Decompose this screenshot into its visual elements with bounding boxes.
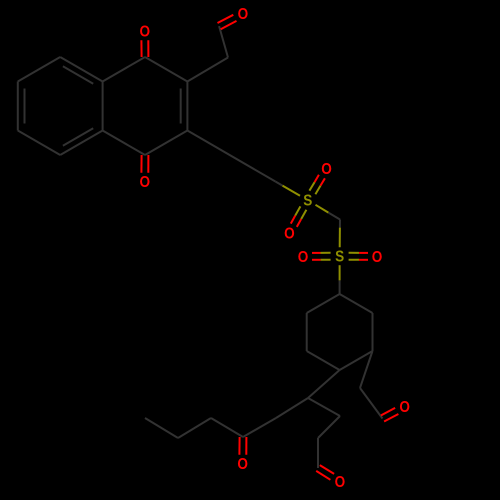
branch bond X1-Y1 [308,398,340,416]
svg-text:O: O [399,399,410,416]
bond CH2d-S2 [339,220,341,228]
chain bond RB-X1 [308,370,340,398]
chain bond E2-E1 [178,418,211,438]
benzene ring bond U-P [17,82,19,131]
benzene ring bond P-Q [18,57,60,82]
bond C2-CH2 acetaldehyde arm [187,58,228,82]
cyclohexane bond LR-RB [340,351,373,370]
chain bond X2-C8 [243,418,276,437]
benzene double-bond tick U=P [24,89,26,124]
cyclohexane bond RT-UR [340,294,373,313]
branch bond Y2-C7 [317,438,319,468]
sulfonyl double bond S2=O2L [321,252,331,254]
bond S1-CH2d [316,205,329,213]
aldehyde double bond C7=O7 [316,471,330,480]
carbonyl double bond C1=O1 [147,40,149,57]
svg-text:O: O [284,226,295,243]
chain bond E1-E0 [145,418,178,438]
chain bond X1-X2 [276,398,308,418]
benzene double-bond tick Q=R [63,66,93,84]
svg-text:O: O [237,456,248,473]
benzene double-bond tick S=T [63,128,93,146]
quinone ring bond C8a-C1 [103,57,145,82]
aldehyde double bond C6=O6 [384,414,398,422]
branch bond LR-CH2g [360,351,373,388]
svg-text:O: O [140,24,151,41]
benzene ring bond T-U [18,131,60,156]
svg-text:O: O [335,474,346,491]
fused shared bond R-S [102,82,104,131]
cyclohexane bond UL-RT [307,294,340,313]
bond K1-S1 [275,182,282,186]
quinone ring bond C4-C4a [103,131,145,156]
sulfonyl double bond S2=O2R [349,259,359,261]
branch bond Y1-Y2 [318,416,340,438]
svg-text:O: O [298,249,309,266]
bond CH2-CHO [219,26,228,57]
aldehyde double bond CHO=O3 [221,21,237,29]
benzene ring bond S-T [60,131,102,156]
svg-text:O: O [372,249,383,266]
cyclohexane bond RB-LL [307,351,340,370]
ketone double bond C8=O8 [238,437,240,455]
svg-text:O: O [140,174,151,191]
chain bond C8-E2 [211,418,243,437]
chain bond C3-K1 [187,131,275,182]
svg-text:S: S [303,193,312,210]
quinone ring bond C1-C2 [145,57,187,82]
cyclohexane bond LL-UL [306,313,308,351]
carbonyl double bond C4=O2 [140,155,142,173]
svg-text:O: O [238,6,249,23]
svg-text:O: O [321,161,332,178]
cyclohexane bond UR-LR [372,313,374,351]
quinone ring bond C3-C4 [145,131,187,156]
benzene ring bond Q-R [60,57,102,82]
quinone double-bond tick C2=C3 [180,89,182,124]
branch bond CH2g-C6 [360,388,383,419]
quinone ring bond C2-C3 [186,82,188,131]
sulfonyl double bond S1=O5 [295,206,300,215]
sulfonyl double bond S1=O4 [315,186,320,195]
svg-text:S: S [335,249,344,266]
bond S2-ring top [339,265,341,280]
